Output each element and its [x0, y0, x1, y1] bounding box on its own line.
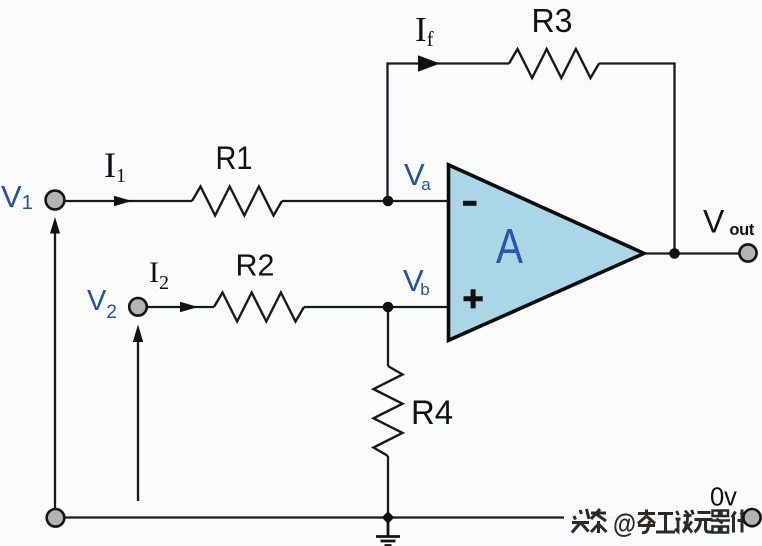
terminal ground left — [47, 509, 65, 527]
resistor R3 — [509, 49, 599, 78]
op-amp A triangle — [449, 165, 645, 340]
watermark 器 — [711, 511, 730, 533]
watermark halo — [564, 506, 744, 537]
wire R2 to op-amp plus input — [304, 306, 448, 308]
wire R1 to op-amp minus input — [282, 200, 448, 202]
wire R3 to output vertical drop — [599, 64, 675, 254]
svg-text:R4: R4 — [411, 394, 453, 432]
output node junction dot — [669, 248, 680, 259]
op-amp minus sign — [463, 201, 477, 206]
svg-text:0v: 0v — [710, 484, 737, 512]
current arrow If — [418, 55, 440, 71]
resistor R2 — [214, 293, 304, 322]
terminal V1 — [46, 191, 65, 210]
current arrow I1 — [114, 196, 132, 207]
resistor R4 — [374, 366, 403, 456]
ground rail wire — [64, 516, 744, 518]
terminal V2 — [129, 298, 147, 316]
terminal ground right — [743, 509, 760, 526]
svg-text:R1: R1 — [216, 140, 253, 176]
node Vb junction dot — [383, 302, 394, 313]
svg-text:R2: R2 — [236, 248, 275, 283]
output wire to Vout terminal — [644, 252, 740, 254]
ground symbol — [376, 518, 400, 546]
watermark 件 — [732, 510, 747, 533]
watermark 元 — [695, 513, 714, 533]
svg-text:R3: R3 — [532, 2, 573, 39]
svg-text:@: @ — [613, 509, 636, 539]
voltage arrow for V2 — [137, 340, 139, 501]
terminal Vout — [739, 244, 756, 261]
watermark 头 — [572, 509, 589, 533]
wire V1 to R1 (inverting input line) — [64, 200, 192, 202]
current arrow I2 — [180, 302, 198, 313]
watermark 谈 — [675, 510, 694, 533]
ground node junction diamond — [382, 511, 395, 524]
wire R4 to ground rail — [387, 456, 389, 518]
wire node Vb down to R4 — [387, 307, 389, 366]
wire V2 to R2 (non-inverting input line) — [147, 306, 214, 308]
watermark 条 — [591, 509, 607, 533]
op-amp plus sign — [464, 289, 483, 308]
svg-text:A: A — [496, 220, 523, 274]
voltage arrow for V1 — [54, 231, 56, 509]
node Va junction dot — [383, 196, 394, 207]
watermark 工 — [656, 514, 675, 533]
watermark 李 — [638, 510, 655, 533]
feedback wire: node Va up and across to R3 — [388, 64, 510, 202]
resistor R1 — [192, 187, 282, 216]
